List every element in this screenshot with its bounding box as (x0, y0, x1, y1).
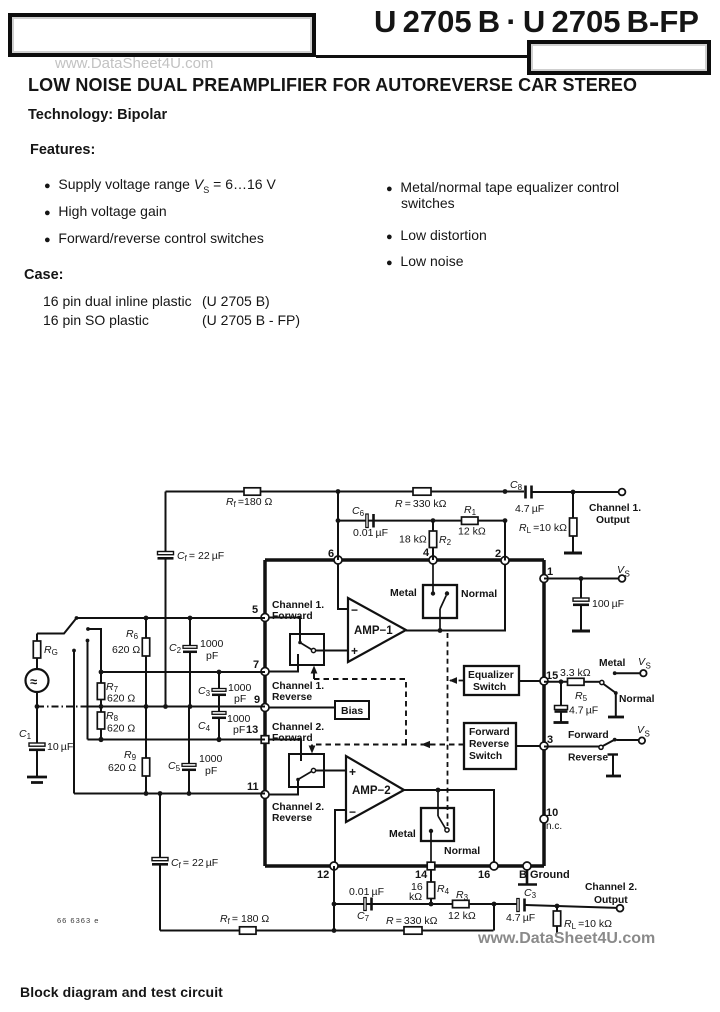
arrowhead equalizer control (449, 677, 457, 684)
wire line 9 dashed part (37, 706, 88, 708)
junction dot 4.7uF branch (559, 679, 564, 684)
svg-text:Channel 1.: Channel 1. (272, 681, 324, 692)
svg-text:Ground: Ground (530, 869, 570, 881)
svg-text:C2: C2 (169, 642, 182, 655)
arrowhead to selector 1 (311, 666, 318, 674)
header right white box (527, 40, 711, 75)
resistor RG (33, 634, 58, 670)
svg-text:R = 330 kΩ: R = 330 kΩ (386, 915, 438, 927)
svg-text:13: 13 (246, 724, 258, 736)
technology (28, 107, 167, 123)
svg-text:Rf = 180 Ω: Rf = 180 Ω (220, 913, 269, 926)
svg-text:S: S (625, 570, 630, 579)
junction dot C6 line right (503, 518, 508, 523)
case heading (24, 267, 64, 283)
wire pin9 to bias (265, 707, 335, 709)
svg-text:−: − (349, 805, 356, 819)
wire AMP-1 inverting input from node 6 (338, 560, 348, 609)
op-amp AMP-2 (346, 756, 404, 822)
svg-text:R6: R6 (126, 628, 139, 641)
resistor RL (10k, ch2) (553, 906, 612, 933)
wire selector 2 to AMP-2 + (316, 770, 347, 772)
resistor R8 (620) (97, 704, 135, 742)
svg-text:pF: pF (206, 650, 218, 662)
svg-text:C8: C8 (510, 479, 523, 492)
svg-text:Metal: Metal (599, 658, 625, 669)
pin 13 (261, 736, 269, 744)
svg-text:Rf =180 Ω: Rf =180 Ω (226, 496, 272, 509)
terminal channel 1 output (589, 489, 641, 526)
junction dot Cf2 / line 11 (158, 791, 163, 796)
svg-text:620 Ω: 620 Ω (107, 693, 135, 705)
svg-text:Forward: Forward (272, 733, 313, 744)
wire pin11 to selector 2 (265, 787, 298, 795)
wire bottom feedback rail (160, 930, 494, 932)
resistor R1 (12k) (458, 504, 486, 538)
svg-text:11: 11 (247, 781, 259, 793)
junction dot AMP-1 output / switch stem (438, 628, 443, 633)
svg-text:4.7 µF: 4.7 µF (515, 503, 544, 515)
svg-text:5: 5 (252, 604, 258, 616)
svg-text:18 kΩ: 18 kΩ (399, 534, 427, 546)
capacitor C7 (0.01uF) (349, 886, 384, 923)
caption (20, 984, 223, 1000)
wire AMP-1 output to node 2 (406, 561, 505, 631)
capacitor C3 (1000pF) (198, 670, 252, 712)
capacitor 100uF (573, 579, 624, 631)
wire pin5 to selector 1 (265, 618, 300, 635)
feature bullets right (386, 179, 656, 211)
svg-text:3.3 kΩ: 3.3 kΩ (560, 667, 591, 679)
svg-text:Metal: Metal (390, 587, 417, 599)
resistor R9 (620) (108, 704, 150, 796)
dashed control line forward reverse to channel selectors (312, 669, 464, 751)
svg-text:Output: Output (596, 515, 630, 526)
ground reverse contact (606, 775, 621, 778)
svg-text:Output: Output (594, 895, 628, 906)
svg-text:1: 1 (547, 566, 553, 578)
metal normal selector switch (external) (599, 656, 655, 716)
header left white box (8, 13, 316, 57)
svg-text:RG: RG (44, 644, 58, 657)
wire pin13 to selector 2 (265, 740, 301, 755)
svg-text:7: 7 (253, 659, 259, 671)
svg-text:Channel 2.: Channel 2. (272, 722, 324, 733)
svg-text:≈: ≈ (30, 674, 37, 689)
svg-text:R = 330 kΩ: R = 330 kΩ (395, 498, 447, 510)
wire line 7 (101, 671, 265, 673)
svg-text:Switch: Switch (469, 751, 502, 762)
capacitor 4.7uF (pin 15) (555, 682, 599, 722)
rule between boxes (316, 55, 528, 58)
pin 15 (540, 677, 548, 685)
svg-text:Normal: Normal (461, 588, 497, 600)
svg-text:Switch: Switch (473, 682, 506, 693)
op-amp AMP-1 (348, 598, 406, 662)
svg-text:1000: 1000 (200, 638, 224, 650)
svg-text:620 Ω: 620 Ω (112, 644, 140, 656)
junction dot C6 line left (336, 518, 341, 523)
switch contact to line 13 branch (86, 639, 90, 643)
resistor Rf (180 ohm, bottom) (220, 913, 269, 934)
wire pin16 column lower (493, 904, 495, 931)
signal source (26, 669, 49, 743)
ground C1 (27, 777, 47, 783)
junction dot top rail / node 2 column (503, 489, 508, 494)
svg-text:16: 16 (478, 869, 490, 881)
capacitor C5 (1000pF) (168, 707, 223, 796)
svg-text:4: 4 (423, 547, 430, 559)
resistor R (330k, top) (395, 488, 447, 510)
features heading (30, 142, 95, 158)
pin 6 (334, 556, 342, 564)
svg-text:Reverse: Reverse (469, 739, 509, 750)
svg-text:pF: pF (205, 765, 217, 777)
channel selector switch 1 (290, 634, 324, 665)
wire node 6 column (337, 492, 339, 561)
svg-text:Cf = 22 µF: Cf = 22 µF (177, 550, 224, 563)
svg-text:R5: R5 (575, 690, 588, 703)
metal/normal switch 2 (421, 790, 454, 866)
wire pin7 to selector 1 (265, 665, 298, 672)
pin number labels (246, 547, 562, 881)
capacitor Cf (22uF, top) (158, 550, 225, 563)
svg-text:C3: C3 (524, 887, 537, 900)
capacitor C6 (0.01uF) (352, 505, 388, 539)
dashed control line equalizer to metal normal switches (448, 633, 465, 826)
title (374, 4, 714, 40)
svg-text:12 kΩ: 12 kΩ (458, 526, 486, 538)
capacitor C3 (4.7uF out) (494, 887, 620, 924)
IC block outline (265, 560, 544, 866)
svg-text:R2: R2 (439, 534, 452, 547)
resistor R (330k, bottom) (386, 915, 438, 934)
wire line 5 (77, 617, 266, 619)
svg-text:pF: pF (233, 724, 245, 736)
capacitor C2 (1000pF) (169, 616, 224, 709)
ground 100uF (572, 630, 590, 633)
ground symbol at pin B (518, 870, 537, 885)
forward reverse selector switch (external) (568, 724, 650, 764)
svg-text:12: 12 (317, 869, 329, 881)
svg-text:Metal: Metal (389, 828, 416, 840)
svg-text:C7: C7 (357, 910, 370, 923)
svg-text:AMP−2: AMP−2 (352, 785, 391, 797)
svg-text:Equalizer: Equalizer (468, 670, 514, 681)
svg-text:C3: C3 (198, 685, 211, 698)
wire line 9 (88, 706, 265, 708)
svg-text:+: + (349, 765, 356, 779)
terminal Vs pin1 (617, 564, 630, 582)
metal/normal switch 1 (423, 560, 457, 631)
svg-text:n.c.: n.c. (546, 821, 562, 832)
wire pin 3 branch (544, 746, 599, 748)
pin 5 (261, 614, 269, 622)
svg-text:4.7 µF: 4.7 µF (569, 705, 598, 717)
svg-text:10 µF: 10 µF (47, 741, 73, 753)
svg-text:Channel 2.: Channel 2. (585, 882, 637, 893)
main heading (28, 75, 637, 96)
junction dot Cf column / line 9 (163, 704, 168, 709)
svg-text:0.01 µF: 0.01 µF (349, 886, 384, 898)
svg-text:R1: R1 (464, 504, 477, 517)
junction dot source / line 9 (35, 704, 40, 709)
wire AMP-2 output to pin 16 (404, 790, 494, 866)
svg-text:AMP−1: AMP−1 (354, 625, 393, 637)
svg-text:15: 15 (546, 670, 558, 682)
pin 12 (330, 862, 338, 870)
svg-text:C1: C1 (19, 728, 32, 741)
bias box (335, 701, 369, 719)
pin 1 (540, 575, 548, 583)
junction dot top rail / node 6 column (336, 489, 341, 494)
terminal channel 2 output (585, 882, 637, 912)
svg-text:Reverse: Reverse (568, 753, 608, 764)
watermark top (55, 55, 213, 72)
svg-text:2: 2 (495, 548, 501, 560)
resistor R2 (18k) (399, 518, 452, 560)
svg-text:RL =10 kΩ: RL =10 kΩ (519, 522, 567, 535)
channel pin name labels (272, 600, 324, 824)
wire Cf column (top) (165, 492, 167, 707)
resistor R3 (12k) (448, 889, 476, 922)
junction dot pin12 column / C7 line (332, 902, 337, 907)
capacitor C8 (4.7uF) (510, 479, 622, 515)
svg-text:R3: R3 (456, 889, 469, 902)
svg-text:Forward: Forward (469, 727, 510, 738)
wire equalizer to pin 15 (519, 680, 544, 682)
pin 16 (490, 862, 498, 870)
svg-text:10: 10 (546, 807, 558, 819)
wire line 13 (88, 739, 266, 741)
feature bullets left (44, 176, 276, 195)
pin 7 (261, 668, 269, 676)
svg-text:C5: C5 (168, 760, 181, 773)
junction dot pin16 column / C7 line (492, 902, 497, 907)
ground normal contact (608, 716, 624, 719)
wire C6-R1 line (338, 520, 505, 522)
junction dot AMP-2 output / switch stem (436, 788, 441, 793)
wire AMP-2 inverting input to pin 12 (335, 810, 346, 866)
wire forward reverse switch to pin 3 (516, 745, 544, 747)
resistor R4 (16k) (409, 870, 450, 906)
ground 4.7uF (554, 721, 569, 724)
svg-text:3: 3 (547, 734, 553, 746)
wire pin 15 branch (544, 681, 567, 683)
svg-text:S: S (645, 730, 650, 739)
svg-text:−: − (351, 603, 358, 617)
svg-text:4.7 µF: 4.7 µF (506, 912, 535, 924)
arrowhead to selector 2 (309, 746, 316, 754)
svg-text:620 Ω: 620 Ω (107, 723, 135, 735)
equalizer switch box (464, 666, 519, 695)
svg-text:Reverse: Reverse (272, 813, 312, 824)
resistor R5 (3.3k) (560, 667, 600, 703)
arrowhead on forward reverse dashed line (421, 741, 430, 748)
capacitor C1 (10uF) (19, 728, 73, 776)
svg-text:Channel 1.: Channel 1. (272, 600, 324, 611)
resistor R7 (620) (97, 670, 135, 707)
channel selector switch 2 (289, 754, 324, 787)
pin B ground (523, 862, 531, 870)
pin 10 (540, 815, 548, 823)
svg-text:Channel 2.: Channel 2. (272, 802, 324, 813)
svg-text:Reverse: Reverse (272, 692, 312, 703)
svg-text:1000: 1000 (199, 753, 223, 765)
resistor R6 (620) (112, 616, 150, 707)
wire Vs pin 1 (544, 578, 622, 580)
wire pin 12 column (333, 866, 335, 931)
wire C7-R3 line (334, 903, 494, 905)
capacitor C4 (1000pF) (198, 712, 251, 743)
svg-text:S: S (646, 662, 651, 671)
watermark bottom (478, 930, 655, 948)
pin 4 (429, 556, 437, 564)
resistor Rf (180 ohm, top) (226, 488, 272, 509)
svg-text:100 µF: 100 µF (592, 598, 624, 610)
ground RL1 (564, 552, 582, 555)
svg-text:Bias: Bias (341, 705, 363, 717)
wire line 11 (74, 793, 265, 795)
svg-text:Forward: Forward (568, 730, 609, 741)
svg-text:Normal: Normal (619, 694, 655, 705)
svg-text:R8: R8 (106, 710, 119, 723)
svg-text:C6: C6 (352, 505, 365, 518)
switch contact to line 11 branch (72, 649, 76, 653)
switch contact to channel 2 forward branch (86, 627, 90, 631)
wire top feedback rail (166, 491, 525, 493)
svg-text:Normal: Normal (444, 845, 480, 857)
svg-text:C4: C4 (198, 720, 211, 733)
wire node 2 column (504, 521, 506, 561)
svg-text:0.01 µF: 0.01 µF (353, 527, 388, 539)
code number (57, 916, 99, 925)
pin 11 (261, 791, 269, 799)
junction dot 100uF (579, 576, 584, 581)
pin 2 (501, 557, 509, 565)
reverse contact to ground (608, 755, 619, 776)
resistor RL (10k, ch1) (519, 492, 577, 552)
svg-text:Forward: Forward (272, 611, 313, 622)
svg-text:620 Ω: 620 Ω (108, 762, 136, 774)
svg-text:pF: pF (234, 693, 246, 705)
capacitor Cf (22uF, bottom) (152, 794, 218, 931)
svg-text:kΩ: kΩ (409, 891, 422, 903)
pin 3 (540, 742, 548, 750)
svg-text:+: + (351, 644, 358, 658)
svg-text:9: 9 (254, 694, 260, 706)
junction dot RL2 (555, 904, 560, 909)
forward reverse switch box (464, 723, 516, 769)
svg-text:Cf = 22 µF: Cf = 22 µF (171, 857, 218, 870)
svg-text:R9: R9 (124, 749, 137, 762)
pin nodes (261, 556, 548, 870)
svg-text:14: 14 (415, 869, 428, 881)
svg-text:Channel 1.: Channel 1. (589, 503, 641, 514)
junction dot output / RL1 (571, 490, 576, 495)
wire selector 1 to AMP-1 + (316, 650, 349, 652)
pin 14 (427, 862, 435, 870)
svg-text:6: 6 (328, 548, 334, 560)
pin 9 (261, 704, 269, 712)
svg-text:12 kΩ: 12 kΩ (448, 910, 476, 922)
junction dot bottom rail / pin 12 column (332, 928, 337, 933)
svg-text:R4: R4 (437, 883, 450, 896)
input selector switch blade (37, 616, 101, 793)
